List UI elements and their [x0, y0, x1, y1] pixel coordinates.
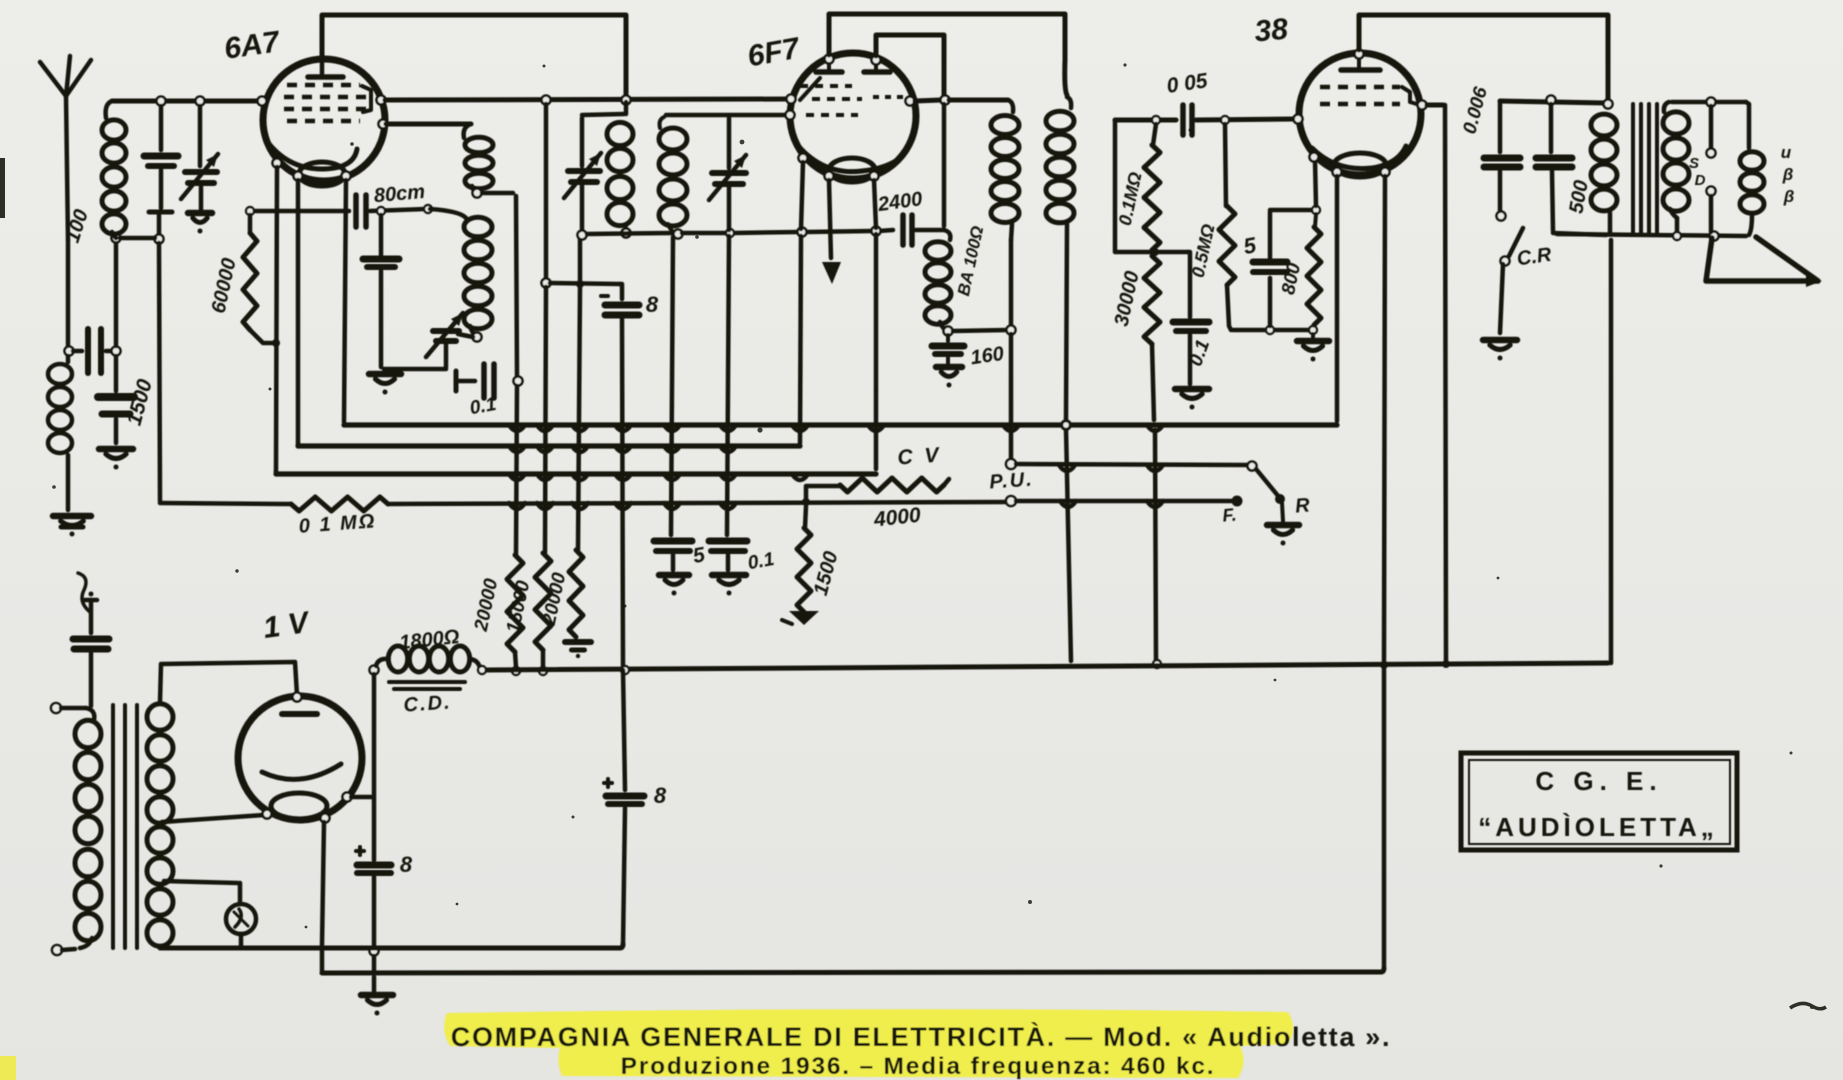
wire x517 down [516, 386, 517, 555]
label R [1294, 494, 1311, 517]
wire 30000 down [1155, 430, 1156, 660]
label 80cm [373, 181, 426, 207]
wire hops bus2 [509, 446, 736, 452]
tube 38 anode arc [1312, 146, 1406, 169]
label 0.5M [1188, 222, 1219, 279]
wire B+ rail [487, 664, 1442, 670]
tube 6F7 cathode [829, 158, 875, 182]
node cap-coil junction [112, 347, 121, 356]
wire 6F7 topcap a [829, 14, 1067, 95]
capacitor 0.006 [1484, 101, 1520, 211]
terminal P.U. lower [1006, 496, 1016, 506]
node x159 junction [155, 235, 164, 244]
wire IF2-sec down [1066, 429, 1071, 661]
tube 6A7 envelope [263, 59, 385, 181]
node x546 top [542, 96, 551, 105]
tube 6A7 anode arc [266, 140, 357, 169]
capacitor 80cm [356, 195, 366, 227]
node 38 pin b1 [1333, 168, 1342, 177]
wire 1V pin-m down [322, 822, 324, 971]
capacitor C-ant 0.01 (series) [73, 329, 113, 373]
node 500 tap [1547, 96, 1556, 105]
svg-text:8: 8 [654, 783, 667, 808]
wire x159 long down [159, 243, 160, 501]
node sec bottom l [1673, 232, 1681, 240]
tube 6A7 grids [284, 85, 371, 121]
capacitor 1500 [98, 356, 134, 470]
label 60000 [208, 256, 241, 315]
capacitor 2400 [903, 215, 912, 245]
inductor L-osc1 [607, 122, 633, 230]
trimmer A [181, 106, 218, 234]
label 30000 [1111, 269, 1144, 328]
trimmer B [426, 313, 473, 367]
tube 1V cathode [271, 793, 327, 819]
wire y233 [587, 233, 672, 234]
wire 38 b2 down [1384, 176, 1385, 661]
wire 6A7 top to osc [322, 15, 626, 97]
wire hops pu-wires [1059, 465, 1163, 507]
inductor IF1-b [430, 209, 492, 336]
tube 1V plate bar [282, 711, 317, 717]
node 6F7 pin b1 [825, 172, 834, 181]
wire 6A7 pin-k down [296, 180, 301, 443]
wire 80cm right [370, 209, 425, 211]
node plate-cd junction [1442, 660, 1450, 668]
node osc trim bottom [578, 231, 587, 240]
switch C.R [1483, 212, 1523, 361]
capacitor C-fix [144, 106, 178, 166]
node 38 pin b2 [1381, 168, 1390, 177]
node 6F7 top pin b [872, 56, 881, 65]
label 20000 a [471, 576, 503, 633]
speaker cone [1706, 237, 1822, 287]
wire L-elbow [1115, 120, 1188, 252]
wire y120 [1115, 118, 1176, 123]
label 0.006 [1459, 84, 1492, 136]
node 6A7 pin k2 [342, 172, 351, 181]
bus 3 y474 [276, 471, 876, 476]
label 0.1 bus [746, 549, 776, 574]
antenna [40, 56, 91, 240]
label mains squiggle [78, 573, 90, 612]
bus 1 y425 [344, 422, 1337, 427]
ground 20000b [565, 642, 591, 658]
corner bus3 [274, 471, 279, 474]
capacitor 8 b [356, 847, 391, 946]
node x626 top [622, 96, 631, 105]
resistor 0.5M [1219, 124, 1235, 330]
node 6A7 pin left [258, 97, 267, 106]
wire y972-x1384 corner [1382, 669, 1387, 966]
resistor 20000 b [569, 550, 583, 637]
wire 6F7 b2 down [874, 180, 876, 469]
tube 1V envelope [238, 696, 362, 820]
wire x727 long [727, 236, 729, 535]
terminal mains bottom [52, 945, 62, 955]
inductor L-ant-lower [48, 356, 72, 510]
label 1800 [398, 626, 460, 654]
transformer core [1633, 104, 1657, 233]
node cap 0.1 junction [514, 377, 523, 386]
tube 38 grids [1320, 87, 1420, 105]
label P.U. [989, 468, 1035, 493]
label 38 [1253, 13, 1289, 49]
tube 6F7 envelope [790, 53, 916, 179]
node xfrm-pri top [1604, 100, 1613, 109]
svg-text:8: 8 [646, 292, 659, 317]
wire x546 down [545, 287, 546, 553]
label 0.1 grid [468, 394, 498, 419]
node 38 top pin [1355, 50, 1364, 59]
tube 38 envelope [1299, 53, 1421, 175]
label C.D. [403, 691, 452, 716]
tube 6F7 top caps [816, 62, 890, 72]
inductor IF2-sec [1046, 97, 1074, 420]
wire x944 down [942, 104, 947, 226]
capacitor 0.1 bus [709, 541, 747, 596]
wire y330 [1233, 328, 1310, 333]
bus 2 y446 [298, 443, 800, 448]
svg-text:P.U.: P.U. [989, 468, 1035, 493]
caption highlight [444, 1009, 1293, 1078]
node y233 junctions [726, 227, 881, 238]
label S.D. [1689, 155, 1706, 189]
wire y284 [550, 283, 620, 284]
wire y210 [1270, 208, 1313, 213]
svg-text:u: u [1781, 143, 1792, 162]
label 500 [1565, 179, 1592, 216]
node BA100 bottom [944, 327, 953, 336]
wire PU lower right [1016, 499, 1233, 504]
potentiometer CV 4000 [840, 478, 949, 492]
wire x374 tail [372, 956, 377, 971]
terminal F [1232, 496, 1243, 507]
node bus1-IF2 [1062, 421, 1070, 429]
node 6F7 pin b0 [799, 154, 808, 163]
transformer output secondary [1663, 102, 1689, 233]
inductor IF1-a [464, 124, 493, 192]
label 6F7 [745, 32, 803, 74]
tube 6A7 cathode [299, 162, 345, 186]
node 6F7 pin left-l [786, 111, 795, 120]
ground main bottom [361, 977, 393, 1016]
label 6A7 [222, 25, 282, 66]
svg-text:R: R [1294, 494, 1311, 517]
node L1-bottom junction [112, 234, 121, 243]
terminal x374 bottom [370, 947, 379, 956]
node sec bottom mid [1710, 232, 1719, 241]
resistor 15000 [535, 553, 551, 650]
nameplate AUDIOLETTA [1478, 812, 1718, 842]
svg-text:F.: F. [1222, 504, 1238, 525]
wire x672 long [671, 237, 673, 535]
wire 6F7 plate right [915, 100, 941, 101]
node 1V pin m [321, 814, 330, 823]
tube 6F7 grids [800, 78, 905, 115]
node 1V pin r [343, 793, 352, 802]
terminal CD left [370, 666, 379, 675]
node IF2-sec on bus [1062, 421, 1071, 430]
lamp [226, 883, 256, 934]
wire IF1a to x517 [482, 193, 517, 376]
inductor voice coil [1740, 152, 1764, 235]
node 6A7 pin right-upper [377, 96, 386, 105]
nameplate C G E [1535, 766, 1662, 796]
label 20000 b [539, 570, 571, 627]
corner bus2 [296, 443, 301, 446]
ground arrow 6F7 [822, 262, 841, 284]
node 0.5M top [1221, 116, 1229, 124]
wire 38 plate [1427, 105, 1446, 660]
node x427 tap [424, 205, 432, 213]
node 1V pin l [263, 810, 272, 819]
wire lamp down [239, 934, 244, 947]
node rail x625 [621, 666, 629, 674]
capacitor 0.1 grid [456, 364, 494, 398]
label 800 [1278, 261, 1305, 297]
svg-text:Produzione 1936. – Media f: Produzione 1936. – Media frequenza: 460 … [621, 1053, 1216, 1080]
wire PU stem [1009, 334, 1014, 458]
wire hops bus4 [509, 503, 736, 509]
ground 1500b [782, 611, 819, 625]
node 1V top pin [293, 693, 302, 702]
svg-text:β: β [1782, 165, 1794, 184]
inductor IF2-pri [991, 100, 1019, 240]
wire x580 seg [578, 236, 580, 550]
inductor BA100 [925, 230, 951, 331]
resistor 800 [1307, 214, 1321, 325]
label CV [897, 444, 943, 470]
trimmer D osc2 [709, 118, 746, 230]
label 5 bus [691, 543, 707, 568]
label 8 b [400, 852, 413, 877]
node IF2-pri bottom [1007, 326, 1016, 335]
label 0.1M [1115, 170, 1146, 227]
svg-text:1 V: 1 V [261, 606, 313, 645]
label 4000 [872, 504, 922, 532]
wire sec top [1672, 100, 1746, 105]
label 8 c [654, 783, 667, 808]
wire sec bottom [1557, 234, 1746, 236]
node 15000 bottom [539, 667, 547, 675]
tube 6F7 anode arc [795, 142, 908, 172]
node sec top mid [1707, 98, 1716, 107]
label 1V [261, 606, 313, 645]
node 6F7 pin right [906, 97, 915, 106]
resistor 30000 [1144, 256, 1160, 420]
wire osc2 top [666, 113, 788, 118]
node L-osc1 bottom [622, 229, 631, 238]
wire grid top [112, 99, 261, 104]
svg-text:8: 8 [400, 852, 413, 877]
wire 38 b1 down [1335, 176, 1340, 421]
capacitor 0.1 c [1173, 252, 1209, 410]
wire 6F7 k1 down [829, 180, 831, 258]
node rail x1611 corner [1609, 240, 1614, 663]
node cap5b tap [1266, 326, 1274, 334]
resistor 60000 [243, 215, 272, 343]
capacitor 0.05 [1183, 105, 1192, 135]
node 6A7 pin k [294, 172, 303, 181]
tube 38 top cap [1341, 58, 1380, 70]
label 0.1 Mohm [298, 510, 377, 537]
label 0.1 c [1185, 337, 1214, 369]
svg-text:D: D [1695, 172, 1706, 189]
transformer mains core [113, 705, 137, 948]
wire mains top [61, 706, 86, 711]
node IF1-a bottom [473, 189, 482, 198]
wire coil-to-159 [120, 236, 155, 241]
svg-text:COMPAGNIA GENERALE DI ELETT: COMPAGNIA GENERALE DI ELETTRICITÀ. — Mod… [451, 1021, 1391, 1052]
wire osc top [582, 102, 626, 115]
inductor L-osc2 [659, 117, 687, 233]
node CV-bus [802, 498, 810, 506]
wire junction up [114, 242, 119, 346]
wire B+ rail end [1450, 663, 1608, 664]
label 1500 [123, 376, 157, 427]
node trimmer-A tap [196, 97, 205, 106]
wire antenna down [66, 240, 71, 351]
tube 38 cathode [1334, 153, 1386, 177]
wire IF2 top [949, 98, 1008, 103]
label 5 b [1241, 232, 1258, 259]
trimmer C osc1 [564, 118, 601, 233]
node 60000 bottom [272, 339, 280, 347]
label 0.05 [1165, 69, 1209, 98]
node 38 pin right [1418, 101, 1427, 110]
wire 15000 tail [541, 650, 546, 667]
terminal mains top [51, 703, 61, 713]
wire sec low tap [164, 881, 238, 883]
wire bottom y948 [160, 944, 623, 948]
capacitor 8 c [604, 670, 644, 946]
svg-text:“AUDÌOLETTA„: “AUDÌOLETTA„ [1478, 812, 1718, 842]
nameplate box [1461, 753, 1737, 850]
inductor C.D. 1800 [376, 646, 480, 672]
capacitor 3 [363, 215, 399, 367]
wire 6A7 pin-k2 down [344, 180, 346, 422]
tube 1V filament arc [262, 764, 341, 779]
label F. [1222, 504, 1238, 525]
wire 6A7 pin-g down [276, 167, 277, 472]
wire 2400 to corner [916, 228, 944, 233]
label 8 first [646, 292, 659, 317]
node cap-C tap [157, 97, 166, 106]
node antenna-cap junction [65, 347, 74, 356]
wire y101 right [1500, 101, 1606, 103]
wire hops bus3 [509, 474, 808, 480]
node 6A7 pin g [273, 159, 282, 168]
svg-text:S: S [1689, 155, 1699, 172]
ground x381 [369, 374, 401, 395]
wire IF2-pri down [1009, 240, 1014, 327]
inductor L1 [102, 101, 126, 238]
node 800 bottom [1309, 326, 1317, 334]
node 0.1M top [1152, 116, 1160, 124]
ground 800 [1297, 334, 1329, 362]
label 1500 b [810, 549, 843, 598]
capacitor 8 first [601, 284, 639, 666]
svg-text:C.D.: C.D. [403, 691, 452, 716]
svg-text:C G. E.: C G. E. [1535, 766, 1662, 796]
node 38b2-cd junction [1380, 661, 1388, 669]
node 6F7 pin b2 [870, 172, 879, 181]
tube 6A7 top cap [308, 58, 343, 77]
resistor 1500 b [797, 506, 811, 612]
wire 6F7 b0 down [800, 162, 803, 443]
capacitor 500-coupling [1536, 104, 1606, 235]
svg-text:80cm: 80cm [373, 181, 426, 207]
wire sec mid tap [162, 815, 264, 822]
resistor 0.1Mohm series [291, 497, 388, 511]
wire cap-C down [149, 170, 172, 236]
wire 38-k lead [1315, 160, 1316, 206]
label 15000 [503, 578, 535, 634]
node L-osc2 bottom [674, 230, 683, 239]
resistor 20000 a [507, 555, 523, 652]
wire 6A7 plate [386, 122, 471, 127]
transformer mains primary [75, 708, 101, 948]
node 20000a bottom [512, 667, 520, 675]
wire sec top tap [160, 662, 297, 702]
wire 38 top [1359, 15, 1608, 100]
node 6A7 pin right-lower [379, 120, 388, 129]
wire CV left [806, 486, 840, 502]
resistor 0.1M [1144, 124, 1160, 250]
node elbow mid [1151, 248, 1159, 256]
wire y120 right [1196, 119, 1294, 120]
capacitor ant2 [73, 592, 109, 707]
label U.B.B. [1781, 143, 1794, 206]
node 800 top [1312, 206, 1320, 214]
switch R [1248, 462, 1300, 546]
node IF1-b bottom [473, 333, 482, 342]
transformer mains secondary [147, 704, 173, 946]
svg-text:160: 160 [969, 343, 1005, 369]
terminal S.D. [1707, 106, 1716, 232]
bus 4 y503 left [160, 503, 291, 504]
label 2400 [876, 188, 924, 216]
capacitor 5 bus [654, 541, 692, 596]
capacitor 160 [932, 335, 964, 388]
transformer output primary [1591, 114, 1617, 233]
wire 20000a tail [515, 652, 516, 667]
wire 1V pin-r right [351, 795, 371, 800]
label BA100 [954, 224, 987, 297]
node 30000 bottom [1153, 660, 1161, 668]
terminal P.U. upper [1006, 459, 1016, 469]
wire x374 down [372, 674, 377, 860]
label 100 [62, 207, 93, 246]
bus 4 y503 right [388, 502, 1007, 504]
wire mains bottom [62, 949, 75, 950]
wire y99 main [385, 99, 789, 100]
ground antenna [53, 516, 91, 537]
node 38 pin b0 [1310, 153, 1319, 162]
node 38 pin left [1294, 115, 1303, 124]
wire hops bus1 [509, 425, 1163, 431]
wire 6F7 topcap b [876, 35, 944, 95]
wire 160 row [953, 330, 1008, 331]
label 160 [969, 343, 1005, 369]
label C.R [1516, 244, 1554, 271]
wire y233 right [682, 230, 893, 233]
node x944 junction [941, 96, 950, 105]
node CD right [478, 666, 486, 674]
wire x546 [544, 104, 549, 279]
node 6F7 pin left-u [787, 95, 796, 104]
